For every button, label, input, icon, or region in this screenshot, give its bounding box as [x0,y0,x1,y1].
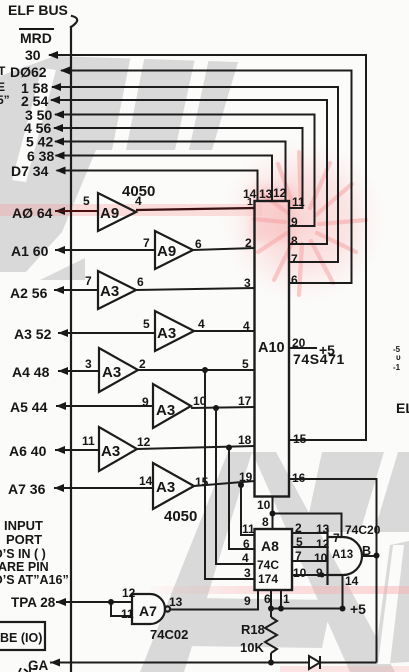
svg-text:9: 9 [244,594,251,608]
svg-text:11: 11 [121,607,134,621]
svg-text:15: 15 [293,432,307,446]
svg-text:A7: A7 [139,603,157,619]
svg-text:17: 17 [238,394,252,408]
junction A10 pin10 branch [270,511,276,517]
wire A1 input [55,249,155,251]
svg-text:TPA 28: TPA 28 [11,595,56,610]
svg-text:14: 14 [345,574,359,588]
svg-text:12: 12 [137,435,151,449]
svg-text:20: 20 [292,336,306,350]
svg-text:R18: R18 [241,622,265,637]
wire A7 output to A8 pin 9 [170,591,258,610]
svg-text:A10: A10 [258,340,285,356]
arrowheads of bus labels [48,51,70,175]
wire A0 input to buffer A9 [55,210,98,212]
buffer A3 (A2) [98,271,136,309]
wire D3 50 to A10 pin 9 [55,115,315,227]
+5 rail bottom [271,608,345,610]
wire A8 pin 2 to A13 pin 13 [292,532,328,534]
wire A8 pin 7 to A13 pin 10 [292,560,328,562]
svg-text:6 38: 6 38 [27,148,54,164]
svg-text:A3: A3 [157,325,176,342]
wire A10 pin 10 down to A8 pin 8 [272,497,274,530]
svg-text:19: 19 [239,470,253,484]
ELF BUS vertical bus wire [70,27,72,672]
svg-text:D7 34: D7 34 [11,163,49,179]
svg-text:A9: A9 [157,243,176,260]
svg-text:A2 56: A2 56 [10,285,48,301]
IC A8 74C174 body [255,529,293,590]
resistor R18 10K [265,609,277,663]
wire A9 out to A10 pin 1 [136,208,255,210]
svg-text:A1 60: A1 60 [11,243,49,259]
svg-text:ARE PIN: ARE PIN [0,560,49,574]
svg-text:A3: A3 [100,283,119,300]
svg-text:A6 40: A6 40 [9,443,47,459]
svg-text:8: 8 [291,234,298,248]
svg-text:13: 13 [259,187,273,201]
svg-text:A3: A3 [156,479,175,496]
address line arrowheads [54,207,68,492]
svg-text:INPUT: INPUT [4,518,43,533]
A13 pin 14 stub to +5 [342,575,344,609]
A10 pin 20 +5 stub [290,347,317,349]
svg-text:A5 44: A5 44 [10,399,48,415]
junction on pin18 wire [226,445,232,451]
svg-text:MRD: MRD [20,30,52,46]
bottom edge text fragment [19,668,37,672]
svg-text:5: 5 [143,317,150,331]
svg-text:5: 5 [242,357,249,371]
IC A10 74S471 body [255,201,290,497]
wire node B down to bottom rail [376,556,378,663]
buffer A3 (A5) [153,384,191,428]
junction on pin19 wire [238,482,244,488]
wire TPA to A7 pin 12 [56,601,132,603]
svg-text:11: 11 [82,434,95,448]
svg-text:30: 30 [25,47,41,63]
svg-text:6: 6 [137,275,144,289]
wire branch to A7 pin 11 [111,602,132,616]
svg-text:6: 6 [243,537,250,551]
svg-text:15: 15 [195,475,209,489]
wire pin18 junction down to A8 pin 6 [229,448,255,550]
svg-text:2: 2 [245,236,252,250]
svg-text:174: 174 [258,572,278,586]
svg-text:3: 3 [244,276,251,290]
svg-text:9: 9 [291,215,298,229]
svg-text:4: 4 [243,319,250,333]
svg-text:6: 6 [291,273,298,287]
svg-text:EL: EL [396,400,409,416]
wire out to A10 pin 4 [194,330,255,332]
wire D0 62 to A10 pin 6 [61,71,352,284]
svg-text:B: B [362,544,371,558]
buffer A3 (A3) [155,311,194,351]
svg-text:12: 12 [273,186,287,200]
svg-text:8: 8 [262,515,269,529]
svg-text:4050: 4050 [122,183,155,200]
svg-text:BE (IO): BE (IO) [0,631,42,645]
svg-text:7: 7 [291,252,298,266]
wire bottom rail [50,662,377,664]
wire D6 38 to A10 pin 13 [56,156,273,202]
svg-text:74C20: 74C20 [345,523,381,537]
svg-text:2: 2 [295,521,302,535]
svg-text:ELF BUS: ELF BUS [8,2,68,18]
svg-text:A9: A9 [100,205,119,222]
svg-text:4: 4 [242,551,249,565]
svg-text:DØ62: DØ62 [10,64,47,80]
svg-text:2: 2 [139,357,146,371]
red highlight starburst at A10 (annotation) [0,0,1,1]
gate A13 74C20 body [328,528,363,585]
svg-text:A7 36: A7 36 [8,481,46,497]
wire A8 pin 5 to A13 pin 12 [292,546,328,548]
svg-text:9: 9 [142,395,149,409]
wire A9 out to A10 pin 2 [193,248,255,250]
wire A6 input [55,449,99,451]
wire A7 input [54,487,153,489]
svg-text:υ: υ [396,353,401,362]
svg-text:3: 3 [85,357,92,371]
diode on bottom rail [309,656,320,669]
svg-text:12: 12 [122,586,136,600]
wire A5 input [56,405,153,407]
box BE (10) [0,622,45,650]
buffer A3 (A7) [153,463,194,509]
svg-text:11: 11 [292,195,305,209]
wire D4 56 to A10 pin 11 [54,128,303,208]
junction +5 rail left [268,606,274,612]
wire MRD 30 to A10 pin 15 [49,55,366,440]
svg-text:+5: +5 [319,342,335,358]
svg-text:6: 6 [264,592,271,606]
junction on pin 9 wire [320,573,325,578]
svg-text:11: 11 [242,522,255,536]
ELF BUS pointer hook [71,16,77,27]
svg-text:13: 13 [169,595,183,609]
svg-text:7: 7 [295,549,302,563]
svg-text:10: 10 [293,566,307,580]
svg-text:-1: -1 [393,363,401,372]
wire A8 pin 10 to A13 pin 9 [292,574,328,576]
wire D5 42 to A10 pin 12 [55,142,286,202]
svg-text:4050: 4050 [164,508,197,525]
svg-text:PORT: PORT [6,532,42,547]
wire pin17 junction down to A8 pin 4 [216,408,255,564]
wire pin19 junction down to A8 pin 11 [241,485,255,535]
A8 pin 1 stub [280,590,282,609]
svg-text:5: 5 [83,194,90,208]
wire out to A10 pin 19 [194,481,255,486]
svg-text:A3: A3 [156,402,175,419]
buffer A9 (A0) [98,193,136,231]
svg-text:A3: A3 [101,443,120,460]
svg-text:3: 3 [244,566,251,580]
buffer A9 (A1) [155,231,193,269]
svg-text:7: 7 [333,531,340,545]
svg-text:A3: A3 [102,364,121,381]
buffer A3 (A6) [99,427,137,471]
svg-text:T: T [0,64,6,78]
svg-text:10: 10 [314,551,328,565]
svg-text:AØ 64: AØ 64 [12,205,53,221]
junction +5 rail pin1 [278,606,284,612]
wire A3 input [58,332,155,334]
wire pin5 junction down to A8 pin 3 [205,370,255,579]
svg-text:A8: A8 [261,538,279,554]
svg-text:GA: GA [28,658,49,672]
svg-text:14: 14 [139,474,153,488]
svg-text:10: 10 [257,498,271,512]
red highlight band along A0 wire (annotation) [0,204,262,216]
svg-text:A4 48: A4 48 [12,364,50,380]
wire D2 54 to A10 pin 8 [51,100,327,244]
A8 pin 16 stub [270,590,272,609]
svg-text:A3 52: A3 52 [14,326,52,342]
wire A13 output pin 8 to node B [362,555,377,557]
wire D1 58 to A10 pin 7 [52,87,338,262]
svg-text:E: E [0,80,5,94]
gate A7 74C02 body [132,594,170,624]
wire out to A10 pin 18 [137,446,255,449]
svg-text:O’S IN ( ): O’S IN ( ) [0,547,46,561]
svg-text:O’S AT”A16”: O’S AT”A16” [0,573,69,587]
svg-text:7: 7 [85,274,92,288]
svg-text:18: 18 [238,433,252,447]
wire A2 input [54,289,98,291]
wire out to A10 pin 17 [191,407,255,408]
svg-text:10K: 10K [240,640,264,655]
junction on pin5 wire [202,367,208,373]
svg-text:74C02: 74C02 [150,627,188,642]
svg-text:7: 7 [143,236,150,250]
wire A4 input [58,370,99,372]
wire A10 pin 16 down to node B [290,479,377,556]
svg-text:5”: 5” [0,93,10,107]
wire out to A10 pin 3 [136,288,255,290]
buffer A3 (A4) [99,348,138,392]
svg-text:74C: 74C [257,558,279,572]
svg-text:4: 4 [198,317,205,331]
svg-text:A13: A13 [332,549,353,561]
red highlight band bottom right (annotation) [0,0,1,1]
wire A10 pin10 branch to A13 pin 7 [273,514,342,538]
svg-text:+5: +5 [350,601,366,617]
wire D7 34 to A10 pin 14 [57,171,258,202]
wire out to A10 pin 5 [138,369,255,371]
svg-text:1: 1 [283,592,290,606]
svg-text:1: 1 [247,196,253,208]
svg-text:5: 5 [296,535,303,549]
junction on pin17 wire [213,405,219,411]
